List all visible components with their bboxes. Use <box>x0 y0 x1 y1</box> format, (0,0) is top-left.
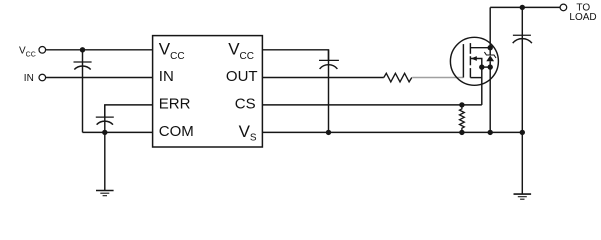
node junction rail/C4 <box>520 5 525 10</box>
svg-text:COM: COM <box>159 123 194 140</box>
IC U1 outline <box>153 36 263 147</box>
wire drain up to load rail <box>489 7 491 47</box>
node junction body/diode anode link <box>479 64 484 69</box>
wire IN terminal to U1 pin IN <box>46 77 153 79</box>
node junction CS/R2 <box>459 102 464 107</box>
node junction diode/VS <box>488 130 493 135</box>
terminal IN (input, left) <box>39 74 46 81</box>
wire VS pin to C4 junction <box>262 131 522 133</box>
body diode D1 zener cathode bar <box>484 52 496 58</box>
wire ERR from U1 pin to C2 <box>105 105 153 117</box>
Q1 channel segment (drain) <box>469 43 471 54</box>
svg-text:VCC: VCC <box>19 46 36 59</box>
capacitor C3 curved plate <box>320 65 338 69</box>
Q1 body arrowhead <box>471 56 477 61</box>
ground symbol (left) <box>96 190 114 192</box>
capacitor C3 top plate <box>319 59 339 61</box>
capacitor C1 (VCC bypass) lead <box>82 50 84 133</box>
Q1 drain connection <box>470 47 490 49</box>
resistor R2 (CS to VS) <box>460 105 465 132</box>
svg-text:VS: VS <box>239 122 257 144</box>
capacitor C2 top plate <box>96 116 114 118</box>
capacitor C3 lead down to VS wire <box>328 50 330 133</box>
node junction drain/diode <box>488 45 493 50</box>
svg-text:LOAD: LOAD <box>569 12 596 23</box>
svg-text:OUT: OUT <box>226 68 258 85</box>
wire R1 to gate (grey) <box>412 77 463 79</box>
resistor R1 (gate series) <box>384 73 412 82</box>
wire COM to U1 pin COM <box>83 131 153 133</box>
svg-text:VCC: VCC <box>159 39 185 62</box>
terminal TO LOAD <box>560 4 567 11</box>
wire U1 VCC (right pin) to C3 <box>262 50 328 61</box>
wire body to diode anode <box>482 66 490 68</box>
terminal VCC (input, left) <box>39 47 46 54</box>
transistor Q1 body circle <box>450 37 498 85</box>
wire diode anode down to VS wire <box>489 67 491 132</box>
node junction COM/C2/ground <box>102 130 107 135</box>
node junction C3/VS <box>326 130 331 135</box>
body diode D1 vertical leads <box>489 48 491 55</box>
svg-text:IN: IN <box>159 68 174 85</box>
body diode D1 triangle (anode up) <box>486 55 494 61</box>
capacitor C4 lead down to ground <box>521 7 523 194</box>
capacitor C1 curved plate <box>74 66 90 69</box>
capacitor C1 top plate <box>74 61 92 63</box>
capacitor C4 top plate <box>513 34 531 36</box>
Q1 channel segment (body) <box>469 56 471 65</box>
Q1 body connection with arrow <box>471 59 482 105</box>
svg-text:IN: IN <box>24 73 34 84</box>
wire VCC terminal to U1 pin VCC <box>46 49 153 51</box>
node junction C4/VS <box>520 130 525 135</box>
ground symbol (right) <box>514 193 532 195</box>
svg-text:CS: CS <box>235 96 256 113</box>
node junction R2/VS <box>459 130 464 135</box>
Q1 gate bar <box>462 44 464 77</box>
node junction diode anode <box>488 64 493 69</box>
svg-text:VCC: VCC <box>228 39 254 62</box>
svg-text:ERR: ERR <box>159 96 191 113</box>
node junction VCC/C1 <box>80 47 85 52</box>
Q1 channel segment (source) <box>469 68 471 78</box>
capacitor C2 curved plate <box>97 121 113 124</box>
capacitor C2 lead / wire to ground <box>104 105 106 190</box>
wire OUT pin to resistor R1 <box>262 77 383 79</box>
capacitor C4 curved plate <box>513 39 532 43</box>
wire CS pin to Q1 source <box>262 104 481 106</box>
wire load rail <box>490 6 560 8</box>
Q1 source connection <box>470 77 481 79</box>
